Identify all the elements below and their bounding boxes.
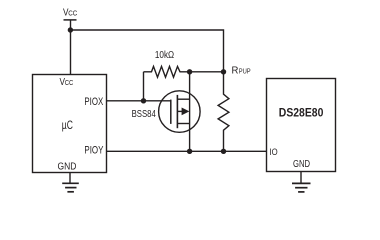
node resistor-drain junction [187,69,192,74]
svg-text:DS28E80: DS28E80 [279,108,324,120]
wire junction up to resistor [143,72,145,101]
wire VCC to uC box [70,30,72,75]
svg-text:µC: µC [62,120,73,132]
wire top rail [71,30,224,72]
svg-text:CC: CC [65,78,74,87]
IC U2 DS28E80 box [267,79,336,172]
ground (under uC) [62,173,79,192]
wire bottom rail PIOY to IO [107,150,267,152]
svg-text:PUP: PUP [239,67,251,76]
svg-text:10kΩ: 10kΩ [155,50,175,61]
svg-text:GND: GND [58,161,77,173]
svg-text:GND: GND [293,158,310,170]
node RPUP top junction [221,69,226,74]
transistor Q1 BSS84 [132,72,201,152]
svg-text:IO: IO [270,147,278,157]
node VCC junction [68,27,73,32]
resistor R1 10kOhm [144,50,190,77]
wire PIOX to gate [107,100,171,102]
node gate junction [141,98,146,103]
resistor RPUP [218,66,251,152]
microcontroller uC box [33,75,107,173]
node RPUP bottom junction [221,149,226,154]
svg-text:CC: CC [68,9,77,18]
power symbol VCC [63,8,78,20]
svg-text:PIOY: PIOY [84,144,103,156]
svg-text:BSS84: BSS84 [132,109,157,120]
wire junction to RPUP top [190,71,224,73]
svg-text:PIOX: PIOX [84,96,103,108]
ground (under DS28E80) [292,172,311,192]
wire VCC stub down to junction [70,20,72,30]
node transistor bottom junction [187,149,192,154]
